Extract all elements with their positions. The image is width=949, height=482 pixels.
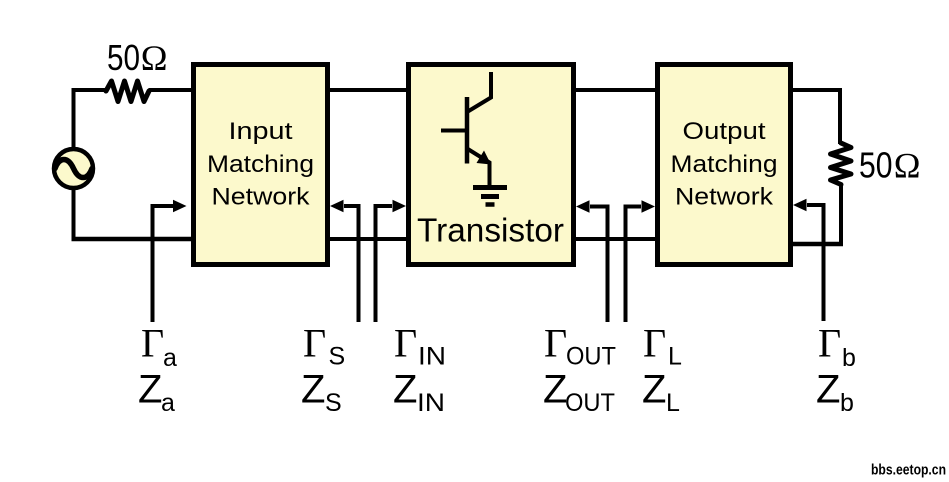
resistor R2 50 ohm (load) bbox=[831, 143, 852, 185]
arrow a: leader into input network bbox=[153, 200, 187, 322]
svg-text:Matching: Matching bbox=[207, 151, 314, 178]
wire: load resistor bottom vertical bbox=[839, 183, 843, 244]
node label Gamma_b bbox=[818, 321, 856, 373]
svg-text:OUT: OUT bbox=[566, 343, 616, 371]
svg-text:IN: IN bbox=[417, 389, 445, 417]
svg-text:Z: Z bbox=[393, 368, 417, 412]
resistor R1 50 ohm (source) bbox=[106, 81, 149, 102]
svg-text:S: S bbox=[325, 389, 342, 417]
wire: bottom rail source to input network bbox=[72, 237, 195, 242]
svg-text:Ω: Ω bbox=[894, 146, 921, 186]
svg-text:Z: Z bbox=[301, 368, 325, 412]
svg-text:a: a bbox=[163, 344, 177, 372]
node label Z_IN bbox=[393, 368, 445, 418]
node label Z_b bbox=[816, 368, 854, 418]
svg-text:50: 50 bbox=[859, 145, 893, 186]
svg-text:Z: Z bbox=[642, 368, 666, 412]
svg-text:Ω: Ω bbox=[141, 38, 168, 78]
wire: top rail input to transistor bbox=[328, 88, 408, 92]
arrow OUT: leader into transistor right side bbox=[576, 200, 608, 322]
svg-text:Γ: Γ bbox=[141, 321, 164, 366]
node label Gamma_S bbox=[303, 321, 345, 371]
svg-text:S: S bbox=[329, 343, 346, 371]
svg-text:Γ: Γ bbox=[818, 321, 841, 366]
voltage source VS bbox=[54, 149, 93, 188]
svg-text:Γ: Γ bbox=[303, 321, 326, 366]
wire: bottom rail transistor to output bbox=[574, 237, 658, 241]
node label Z_S bbox=[301, 368, 342, 418]
svg-text:Z: Z bbox=[816, 368, 840, 412]
arrow IN: leader into transistor left side bbox=[376, 200, 407, 322]
svg-text:Matching: Matching bbox=[671, 151, 778, 178]
svg-text:Input: Input bbox=[229, 118, 293, 145]
svg-text:b: b bbox=[840, 389, 854, 417]
node label Gamma_L bbox=[643, 321, 682, 371]
arrow b: leader into output network right side bbox=[793, 199, 824, 321]
svg-text:OUT: OUT bbox=[565, 389, 615, 417]
wire: top rail from R1 to input network bbox=[149, 88, 195, 92]
svg-text:Z: Z bbox=[543, 368, 567, 412]
wire: bottom rail output to load bbox=[791, 242, 843, 247]
svg-text:50: 50 bbox=[107, 37, 140, 78]
node label Gamma_OUT bbox=[544, 321, 616, 371]
emitter lead with arrow bbox=[467, 149, 490, 186]
svg-text:L: L bbox=[666, 389, 680, 417]
node label Gamma_IN bbox=[394, 321, 446, 371]
wire: top rail transistor to output bbox=[574, 88, 658, 92]
input matching network block bbox=[194, 65, 328, 265]
svg-text:Transistor: Transistor bbox=[417, 212, 564, 249]
label 50ohm (source) bbox=[107, 37, 167, 78]
wire: top rail output to load resistor bbox=[791, 90, 840, 144]
node label Z_L bbox=[642, 368, 680, 418]
base lead bbox=[441, 129, 467, 133]
wire: source bottom vertical bbox=[72, 188, 76, 241]
svg-text:a: a bbox=[161, 389, 175, 417]
svg-text:bbs.eetop.cn: bbs.eetop.cn bbox=[871, 462, 946, 479]
arrow S: leader into input network right side bbox=[330, 200, 359, 322]
node label Z_OUT bbox=[543, 368, 615, 418]
transistor Q1 symbol bbox=[441, 72, 507, 205]
svg-text:b: b bbox=[842, 344, 856, 372]
svg-text:IN: IN bbox=[418, 343, 446, 371]
svg-text:Output: Output bbox=[683, 118, 766, 145]
ground bbox=[473, 185, 507, 190]
svg-text:Network: Network bbox=[675, 184, 774, 211]
node label Z_a bbox=[138, 368, 175, 418]
svg-text:L: L bbox=[668, 343, 682, 371]
wire: top rail from source to R1 bbox=[74, 88, 108, 92]
wire: source top vertical bbox=[72, 88, 76, 149]
wire: bottom rail input to transistor bbox=[328, 237, 408, 241]
node label Gamma_a bbox=[141, 321, 177, 373]
base bar bbox=[465, 97, 470, 164]
transistor block U1 bbox=[409, 65, 574, 265]
svg-text:Z: Z bbox=[138, 368, 162, 412]
collector lead bbox=[467, 72, 491, 112]
svg-text:Γ: Γ bbox=[643, 321, 666, 366]
svg-text:Γ: Γ bbox=[394, 321, 417, 366]
svg-text:Γ: Γ bbox=[544, 321, 567, 366]
arrow L: leader into output network left side bbox=[626, 200, 656, 322]
svg-text:Network: Network bbox=[212, 184, 311, 211]
label 50ohm (load) bbox=[859, 145, 921, 186]
output matching network block bbox=[658, 65, 791, 265]
